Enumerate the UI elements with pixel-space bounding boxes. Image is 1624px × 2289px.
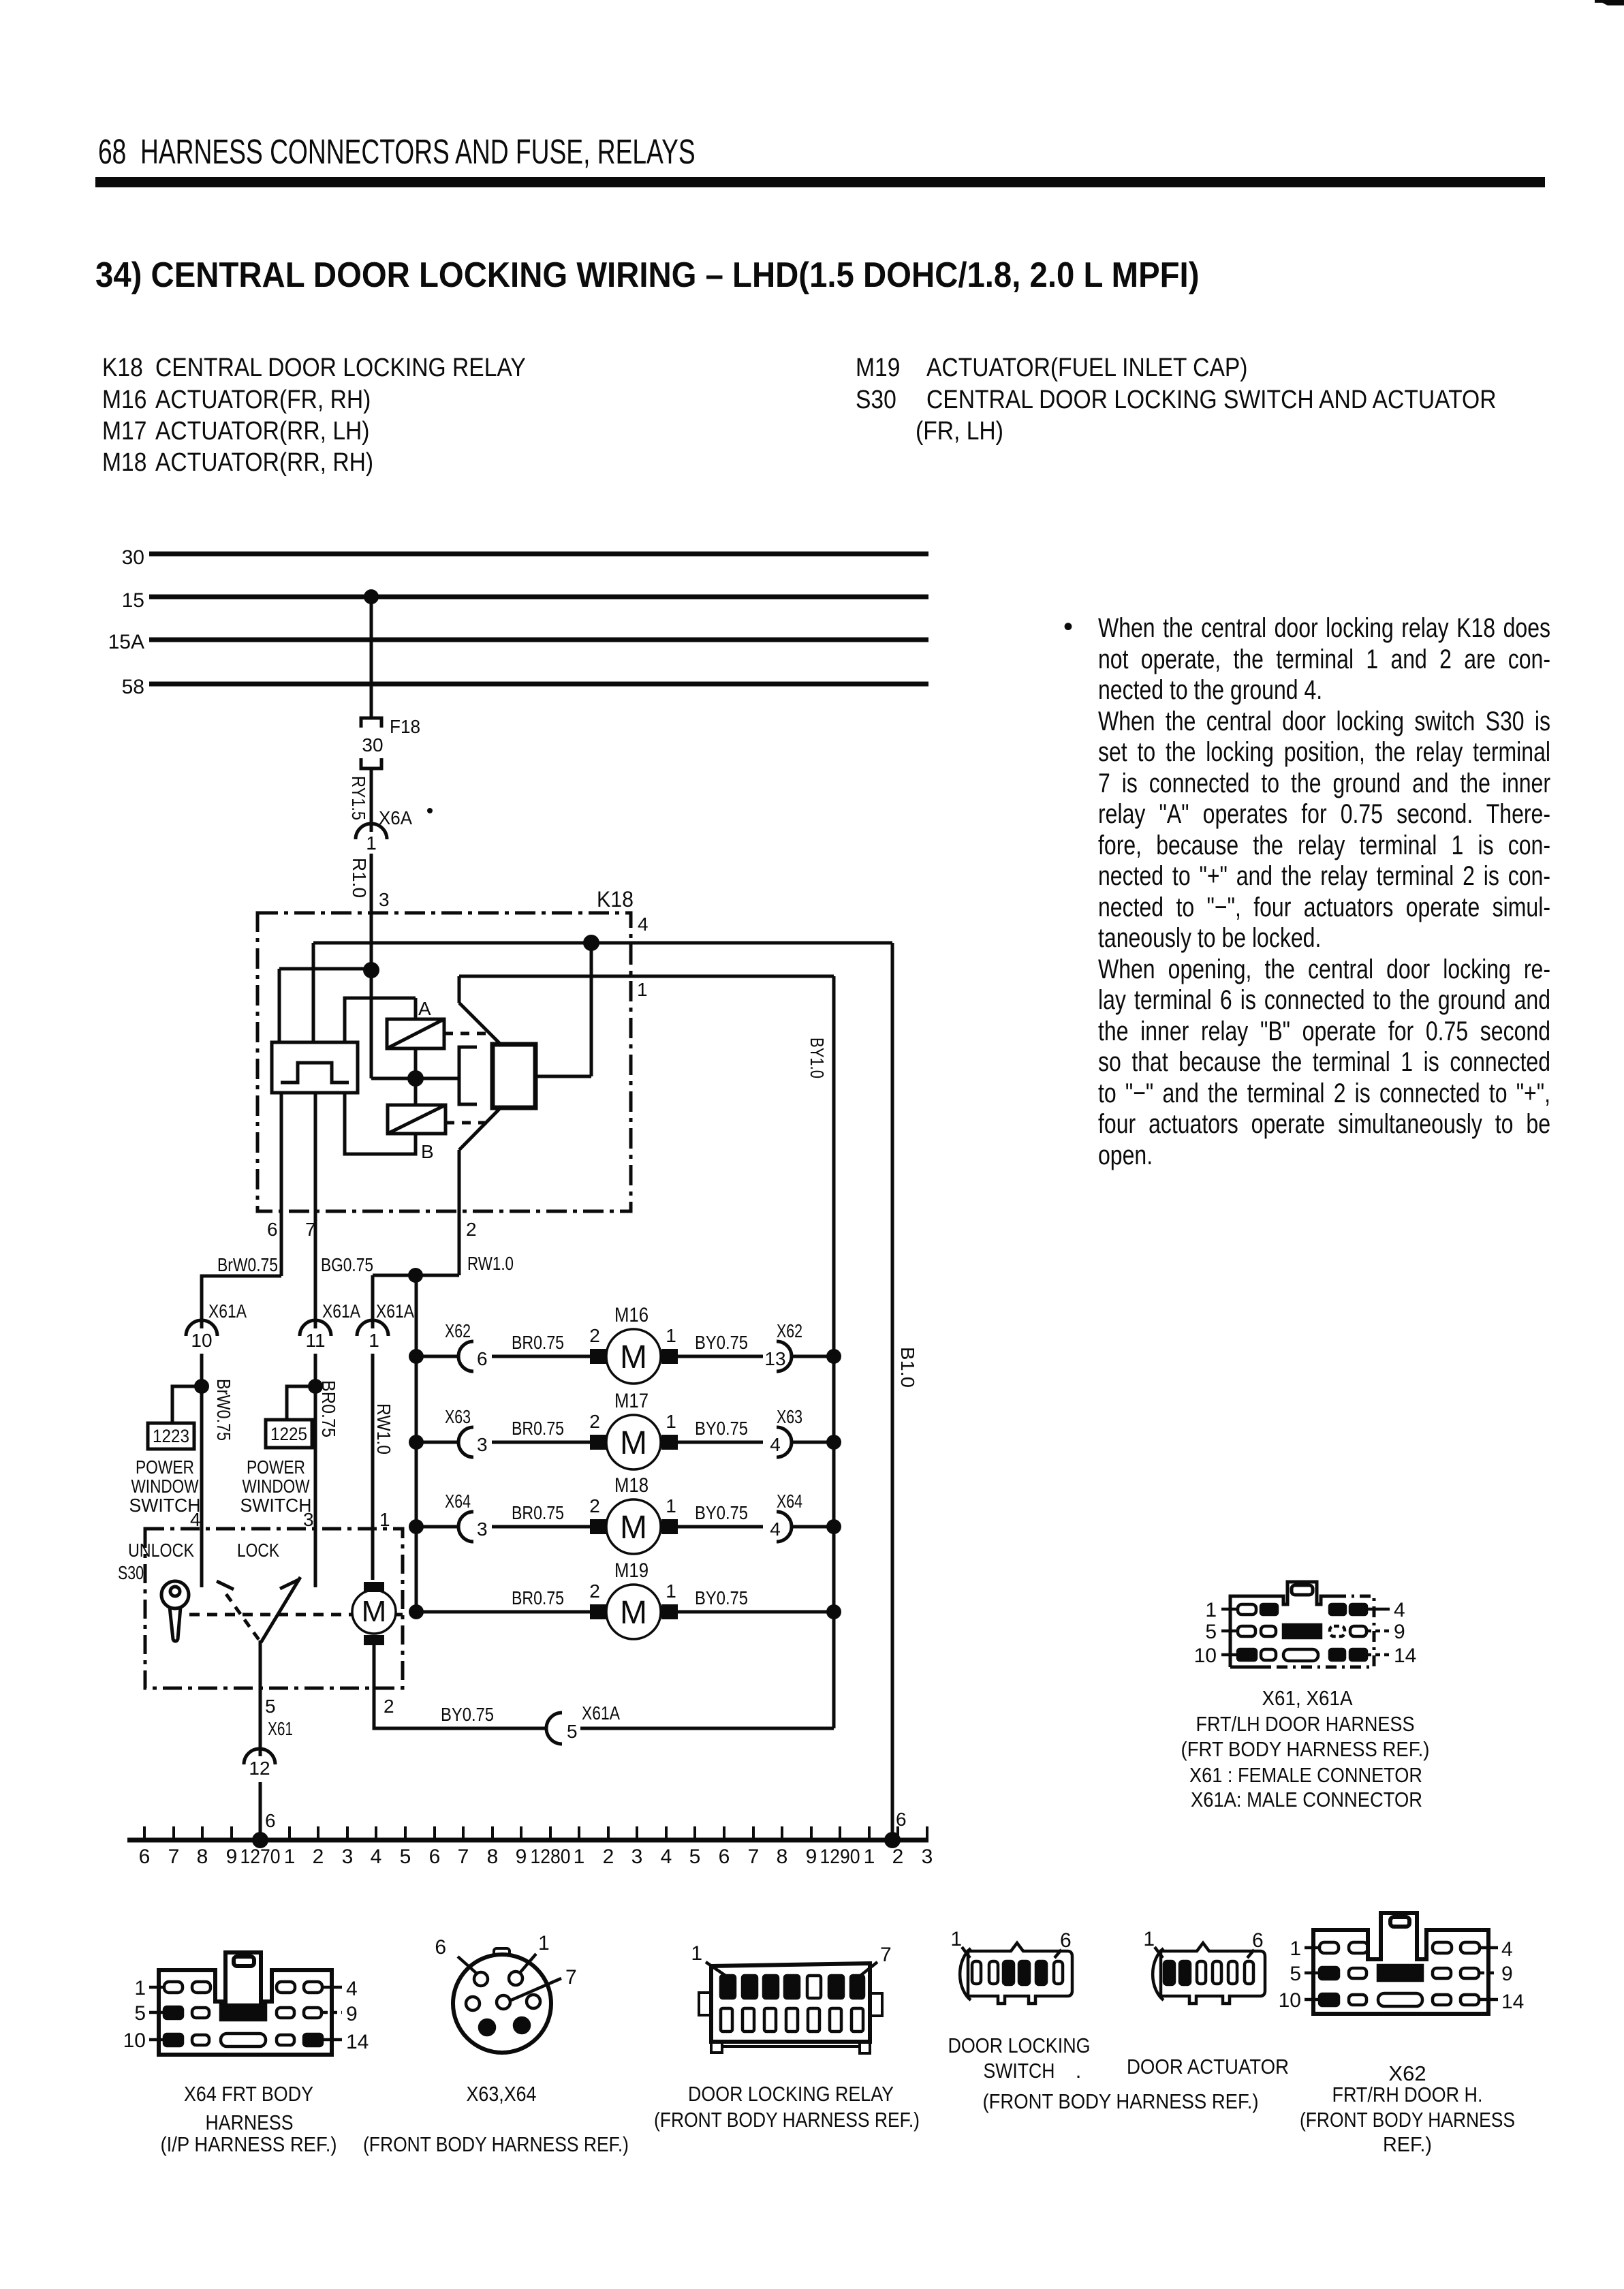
svg-text:1: 1 [666, 1495, 676, 1516]
svg-text:1: 1 [284, 1846, 296, 1868]
svg-text:BY0.75: BY0.75 [695, 1587, 748, 1608]
svg-text:2: 2 [313, 1846, 324, 1868]
svg-text:4: 4 [770, 1519, 781, 1540]
svg-text:8: 8 [487, 1846, 499, 1868]
svg-text:X64: X64 [777, 1491, 802, 1512]
svg-text:BY0.75: BY0.75 [695, 1332, 748, 1353]
svg-text:BY0.75: BY0.75 [695, 1502, 748, 1523]
svg-text:X61A: X61A [376, 1301, 414, 1322]
svg-text:5: 5 [265, 1696, 276, 1717]
svg-text:11: 11 [305, 1330, 325, 1351]
svg-text:4: 4 [1394, 1599, 1405, 1621]
svg-text:LOCK: LOCK [237, 1540, 279, 1561]
svg-text:1: 1 [666, 1325, 676, 1346]
svg-text:(FRONT BODY HARNESS: (FRONT BODY HARNESS [1300, 2108, 1515, 2132]
svg-text:(FRONT BODY HARNESS REF.): (FRONT BODY HARNESS REF.) [363, 2132, 629, 2156]
svg-text:14: 14 [1501, 1991, 1524, 2013]
svg-text:10: 10 [1279, 1989, 1301, 2012]
svg-text:5: 5 [400, 1846, 411, 1868]
svg-text:5: 5 [567, 1721, 578, 1742]
svg-text:5: 5 [689, 1846, 701, 1868]
svg-text:M19: M19 [614, 1559, 649, 1582]
svg-text:HARNESS: HARNESS [206, 2111, 294, 2134]
svg-text:2: 2 [466, 1219, 477, 1240]
svg-text:X61, X61A: X61, X61A [1262, 1686, 1353, 1710]
svg-text:6: 6 [1060, 1929, 1072, 1952]
svg-text:12: 12 [249, 1758, 270, 1779]
svg-text:15A: 15A [108, 631, 144, 653]
svg-text:WINDOW: WINDOW [131, 1476, 199, 1497]
svg-text:X62: X62 [1388, 2061, 1426, 2085]
svg-text:9: 9 [346, 2003, 358, 2025]
svg-text:1: 1 [1143, 1928, 1155, 1950]
svg-text:FRT/LH DOOR HARNESS: FRT/LH DOOR HARNESS [1196, 1712, 1415, 1736]
svg-text:30: 30 [122, 546, 144, 569]
svg-text:1: 1 [950, 1928, 962, 1950]
svg-text:R1.0: R1.0 [349, 858, 370, 898]
svg-text:6: 6 [139, 1846, 151, 1868]
svg-text:F18: F18 [390, 716, 420, 737]
svg-text:WINDOW: WINDOW [243, 1476, 310, 1497]
svg-text:2: 2 [603, 1846, 614, 1868]
svg-text:DOOR LOCKING RELAY: DOOR LOCKING RELAY [688, 2082, 894, 2106]
svg-text:1: 1 [691, 1942, 702, 1965]
svg-text:M18: M18 [614, 1474, 649, 1497]
svg-text:4: 4 [638, 914, 649, 935]
svg-text:2: 2 [589, 1495, 600, 1516]
svg-text:6: 6 [1252, 1929, 1264, 1952]
svg-text:1290: 1290 [820, 1846, 860, 1868]
svg-text:BY1.0: BY1.0 [807, 1038, 828, 1078]
svg-text:POWER: POWER [136, 1457, 194, 1478]
svg-text:6: 6 [267, 1219, 278, 1240]
svg-text:1: 1 [666, 1580, 676, 1602]
svg-text:M16: M16 [614, 1304, 649, 1326]
svg-text:1: 1 [1290, 1937, 1301, 1960]
svg-text:BR0.75: BR0.75 [318, 1380, 339, 1437]
svg-text:1: 1 [538, 1932, 550, 1955]
svg-text:BR0.75: BR0.75 [512, 1587, 564, 1608]
svg-text:S30: S30 [118, 1562, 144, 1583]
svg-text:X61A: MALE CONNECTOR: X61A: MALE CONNECTOR [1191, 1788, 1422, 1811]
svg-text:BrW0.75: BrW0.75 [217, 1254, 278, 1275]
svg-text:M: M [620, 1510, 647, 1546]
svg-text:X62: X62 [445, 1320, 471, 1341]
svg-text:2: 2 [892, 1846, 904, 1868]
svg-text:7: 7 [880, 1944, 892, 1966]
svg-text:DOOR ACTUATOR: DOOR ACTUATOR [1127, 2055, 1289, 2078]
svg-text:3: 3 [303, 1509, 314, 1530]
svg-text:3: 3 [477, 1434, 488, 1455]
svg-text:RW1.0: RW1.0 [467, 1253, 514, 1274]
svg-text:UNLOCK: UNLOCK [128, 1540, 194, 1561]
svg-text:7: 7 [305, 1219, 316, 1240]
svg-text:1: 1 [666, 1411, 676, 1432]
svg-text:2: 2 [589, 1325, 600, 1346]
svg-text:SWITCH: SWITCH [240, 1495, 312, 1516]
svg-text:POWER: POWER [247, 1457, 305, 1478]
svg-text:4: 4 [371, 1846, 382, 1868]
svg-text:A: A [418, 998, 431, 1019]
svg-text:1: 1 [574, 1846, 585, 1868]
svg-text:7: 7 [168, 1846, 180, 1868]
svg-text:X61: X61 [268, 1718, 293, 1739]
svg-text:4: 4 [1501, 1938, 1513, 1961]
svg-text:FRT/RH DOOR H.: FRT/RH DOOR H. [1332, 2083, 1483, 2106]
svg-text:1: 1 [366, 832, 377, 854]
svg-text:REF.): REF.) [1383, 2132, 1432, 2156]
svg-text:3: 3 [342, 1846, 354, 1868]
svg-text:BR0.75: BR0.75 [512, 1332, 564, 1353]
svg-text:9: 9 [516, 1846, 527, 1868]
svg-text:M: M [362, 1595, 387, 1628]
svg-text:7: 7 [748, 1846, 760, 1868]
svg-text:X63: X63 [445, 1406, 471, 1427]
svg-text:X61A: X61A [322, 1301, 360, 1322]
svg-text:10: 10 [1194, 1645, 1217, 1667]
svg-text:6: 6 [435, 1936, 446, 1959]
svg-text:30: 30 [362, 734, 383, 756]
svg-text:2: 2 [589, 1411, 600, 1432]
svg-text:X63,X64: X63,X64 [467, 2082, 537, 2106]
svg-text:B: B [421, 1141, 434, 1162]
svg-text:6: 6 [265, 1810, 276, 1831]
svg-text:BrW0.75: BrW0.75 [213, 1379, 234, 1441]
svg-text:1223: 1223 [153, 1426, 189, 1446]
svg-text:9: 9 [806, 1846, 817, 1868]
svg-text:3: 3 [631, 1846, 643, 1868]
svg-text:7: 7 [565, 1966, 577, 1989]
svg-text:X61 : FEMALE CONNETOR: X61 : FEMALE CONNETOR [1189, 1763, 1422, 1787]
svg-text:2: 2 [384, 1696, 394, 1717]
svg-text:K18: K18 [597, 887, 634, 912]
svg-text:9: 9 [226, 1846, 238, 1868]
svg-text:1: 1 [637, 979, 648, 1000]
svg-text:3: 3 [922, 1846, 933, 1868]
svg-text:5: 5 [1205, 1621, 1217, 1643]
svg-text:14: 14 [1394, 1645, 1416, 1667]
svg-text:M: M [620, 1595, 647, 1631]
svg-text:6: 6 [719, 1846, 730, 1868]
svg-text:(FRT BODY HARNESS REF.): (FRT BODY HARNESS REF.) [1181, 1737, 1430, 1761]
svg-text:2: 2 [589, 1580, 600, 1602]
svg-text:6: 6 [477, 1348, 488, 1369]
svg-text:X63: X63 [777, 1406, 802, 1427]
svg-text:1: 1 [134, 1977, 146, 1999]
svg-text:X62: X62 [777, 1320, 802, 1341]
svg-text:4: 4 [190, 1509, 201, 1530]
svg-text:1: 1 [864, 1846, 875, 1868]
svg-text:15: 15 [122, 589, 144, 612]
svg-text:1: 1 [369, 1330, 379, 1351]
svg-text:1270: 1270 [240, 1846, 281, 1868]
svg-text:3: 3 [379, 889, 390, 910]
svg-text:RY1.5: RY1.5 [348, 776, 369, 820]
svg-text:DOOR LOCKING: DOOR LOCKING [948, 2034, 1091, 2057]
svg-text:X61A: X61A [208, 1301, 247, 1322]
svg-text:5: 5 [1290, 1963, 1301, 1985]
svg-text:1225: 1225 [270, 1424, 307, 1444]
svg-text:B1.0: B1.0 [897, 1347, 918, 1388]
svg-text:1280: 1280 [531, 1846, 571, 1868]
svg-text:9: 9 [1394, 1621, 1405, 1643]
svg-text:10: 10 [123, 2029, 146, 2052]
svg-text:RW1.0: RW1.0 [373, 1403, 394, 1454]
svg-text:8: 8 [197, 1846, 208, 1868]
svg-text:(FRONT BODY HARNESS REF.): (FRONT BODY HARNESS REF.) [983, 2089, 1259, 2113]
svg-text:BY0.75: BY0.75 [441, 1704, 494, 1725]
svg-text:8: 8 [777, 1846, 788, 1868]
svg-text:14: 14 [346, 2031, 369, 2053]
svg-text:X61A: X61A [582, 1702, 620, 1724]
svg-text:X64 FRT BODY: X64 FRT BODY [184, 2082, 313, 2106]
svg-text:7: 7 [458, 1846, 469, 1868]
svg-text:X64: X64 [445, 1491, 471, 1512]
svg-text:BY0.75: BY0.75 [695, 1418, 748, 1439]
svg-text:BG0.75: BG0.75 [321, 1254, 373, 1275]
svg-text:58: 58 [122, 676, 144, 698]
svg-text:6: 6 [429, 1846, 441, 1868]
svg-text:5: 5 [134, 2002, 146, 2025]
svg-text:1: 1 [379, 1509, 390, 1530]
svg-text:M17: M17 [614, 1390, 649, 1412]
svg-text:X6A: X6A [379, 807, 412, 828]
svg-text:(FRONT BODY HARNESS REF.): (FRONT BODY HARNESS REF.) [654, 2108, 920, 2132]
svg-text:1: 1 [1205, 1599, 1217, 1621]
svg-text:BR0.75: BR0.75 [512, 1502, 564, 1523]
svg-text:10: 10 [191, 1330, 212, 1351]
svg-text:BR0.75: BR0.75 [512, 1418, 564, 1439]
svg-text:M: M [620, 1425, 647, 1461]
svg-text:M: M [620, 1339, 647, 1375]
svg-text:9: 9 [1501, 1963, 1513, 1985]
svg-text:SWITCH: SWITCH [984, 2059, 1055, 2083]
svg-text:(I/P HARNESS REF.): (I/P HARNESS REF.) [161, 2132, 337, 2156]
svg-text:4: 4 [346, 1978, 358, 2000]
svg-text:.: . [1076, 2059, 1082, 2083]
svg-text:4: 4 [770, 1434, 781, 1455]
svg-text:4: 4 [661, 1846, 672, 1868]
svg-text:3: 3 [477, 1519, 488, 1540]
svg-text:13: 13 [764, 1348, 785, 1369]
